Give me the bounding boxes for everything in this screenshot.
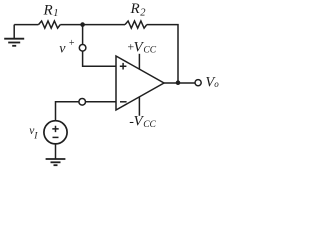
resistor R1 bbox=[39, 21, 61, 28]
svg-text:v: v bbox=[59, 41, 66, 56]
op-amp +Vcc pin bbox=[138, 54, 140, 69]
terminal v+ open circle bbox=[79, 45, 86, 52]
op-amp - input symbol bbox=[120, 101, 127, 103]
svg-text:o: o bbox=[214, 79, 219, 89]
wire ground to R1 bbox=[14, 24, 38, 26]
svg-text:R: R bbox=[43, 2, 53, 18]
wire R1 to node A bbox=[60, 24, 82, 26]
ground (top-left) bbox=[4, 25, 24, 46]
svg-text:R: R bbox=[130, 1, 140, 17]
v1 plus sign bbox=[52, 126, 58, 132]
voltage source v1 bbox=[44, 121, 67, 144]
terminal minus-input open circle bbox=[79, 99, 86, 106]
label v+ bbox=[59, 38, 75, 57]
label Vo bbox=[205, 74, 219, 90]
wire v+ terminal down and right to op-amp + input bbox=[83, 51, 116, 66]
label +Vcc bbox=[127, 39, 157, 55]
node A junction dot bbox=[80, 22, 85, 27]
label R2 bbox=[130, 1, 147, 18]
svg-text:CC: CC bbox=[143, 46, 156, 56]
label R1 bbox=[43, 2, 59, 19]
wire R2 to top-right corner and down to output node bbox=[147, 25, 178, 83]
op-amp + input symbol bbox=[120, 63, 127, 70]
wire v1 to ground bbox=[55, 144, 57, 159]
svg-text:+: + bbox=[68, 38, 75, 49]
label -Vcc bbox=[129, 113, 156, 130]
wire node A to R2 bbox=[83, 24, 125, 26]
output node junction dot bbox=[176, 80, 181, 85]
svg-text:2: 2 bbox=[140, 8, 146, 19]
wire node A down to v+ terminal bbox=[82, 25, 84, 45]
ground (under v1) bbox=[46, 159, 66, 165]
v1 minus sign bbox=[53, 136, 59, 138]
label v1 bbox=[29, 125, 38, 142]
wire v1 up and right to op-amp - input bbox=[56, 102, 79, 121]
svg-text:CC: CC bbox=[143, 120, 156, 130]
op-amp -Vcc pin bbox=[138, 97, 140, 116]
wire - input terminal to op-amp bbox=[85, 101, 116, 103]
wire op-amp output to Vo terminal bbox=[164, 82, 195, 84]
svg-text:1: 1 bbox=[53, 8, 58, 19]
resistor R2 bbox=[125, 21, 147, 28]
op-amp U1 triangle bbox=[116, 56, 164, 110]
terminal Vo open circle bbox=[195, 80, 201, 86]
